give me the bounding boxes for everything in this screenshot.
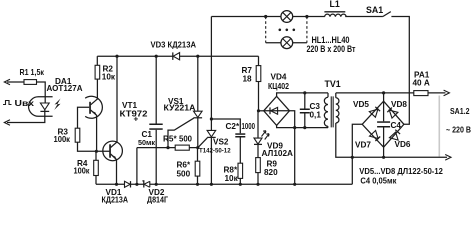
svg-text:R1 1,5к: R1 1,5к [20, 68, 45, 77]
node: bridge arm on rail [293, 183, 296, 186]
svg-text:500: 500 [179, 134, 192, 143]
capacitor C4 [377, 101, 390, 147]
transformer TV1 secondary [336, 93, 353, 157]
svg-text:АЛ102А: АЛ102А [262, 149, 294, 158]
wire: input top lead with left arrow [4, 79, 45, 102]
resistor R6 [195, 148, 200, 185]
svg-text:VD5: VD5 [353, 100, 369, 109]
svg-text:VS2: VS2 [213, 138, 229, 147]
transformer TV1 core [331, 96, 334, 127]
optocoupler U1 LED housing [29, 97, 53, 117]
wire: LED cathode to lower input arrow [4, 111, 45, 125]
node: R9 bottom on rail [256, 183, 259, 186]
svg-text:~ 220 В: ~ 220 В [446, 126, 471, 135]
lamp HL1 [281, 11, 293, 23]
wire: R2 top to +rail [96, 56, 98, 65]
zener diode VD2 [142, 181, 149, 188]
wire: R9 bottom [257, 173, 259, 185]
switch SA1 [383, 12, 391, 17]
node: VS2 cathode on rail [210, 183, 213, 186]
capacitor C2 [235, 133, 245, 163]
photon arrows of DA1 [54, 99, 60, 110]
node: R8 bottom on rail [239, 183, 242, 186]
wire: SA1 to right arm down [391, 17, 409, 93]
capacitor C1 [149, 56, 162, 184]
node: VT1 collector on rail [115, 55, 118, 58]
diode VD1 [125, 181, 131, 187]
svg-text:Д814Г: Д814Г [147, 195, 168, 204]
node: arm crosses bottom bus [293, 126, 296, 129]
wire: bridge right arm down to rail [290, 111, 295, 185]
svg-text:50мк: 50мк [138, 138, 155, 147]
node: C3 top [303, 91, 306, 94]
wire: bridge bottom lead and bottom bus to TV1 [277, 125, 328, 127]
wire: bridge right arm up to bus [404, 93, 409, 124]
thyristor VS1 [168, 56, 202, 147]
node: VS1 anode on rail [196, 55, 199, 58]
svg-text:Т142-50-12: Т142-50-12 [199, 147, 231, 154]
node: base/R4 junction [95, 150, 98, 153]
resistor R5 [175, 145, 189, 150]
resistor R8 [238, 163, 243, 184]
wire: secondary top bus to PA1 [336, 92, 446, 94]
node: R7/VD9/bridge junction [257, 109, 260, 112]
svg-text:C4 0,05мк: C4 0,05мк [360, 176, 397, 185]
arrow: output bottom [445, 155, 451, 161]
svg-text:TV1: TV1 [325, 79, 341, 89]
svg-text:КУ221А: КУ221А [164, 104, 196, 113]
node: C1 top on rail [155, 55, 158, 58]
resistor R4 [94, 160, 99, 175]
transistor VT1 [103, 56, 123, 184]
inductor L1 [324, 11, 346, 17]
wire: output bottom [352, 156, 447, 158]
wire: R3 bottom to VT1 base [78, 142, 111, 151]
resistor R9 [256, 158, 261, 173]
resistor R7 [256, 56, 261, 111]
svg-text:C4: C4 [391, 121, 402, 130]
wire: bridge left lead [259, 110, 264, 112]
dashed link left of lamp group [265, 17, 267, 43]
svg-text:VD6: VD6 [395, 140, 411, 149]
resistor R2 [95, 65, 100, 79]
svg-text:VD5...VD8 ДЛ122-50-12: VD5...VD8 ДЛ122-50-12 [359, 167, 443, 176]
transformer TV1 primary [324, 93, 328, 128]
node: R5 corner on rail [135, 183, 138, 186]
wire: C2 branch [211, 119, 240, 133]
node: bridge bottom on output wire [382, 156, 385, 159]
resistor R1 [24, 80, 37, 85]
svg-text:10к: 10к [102, 72, 116, 81]
wire: bridge bottom stub [383, 147, 385, 157]
svg-text:АОТ127А: АОТ127А [47, 84, 83, 93]
node: dashed box left on rail [264, 15, 267, 18]
svg-text:0,1: 0,1 [310, 111, 322, 120]
svg-text:КЦ402: КЦ402 [268, 82, 289, 91]
svg-text:R6*: R6* [177, 161, 191, 170]
svg-text:100к: 100к [54, 135, 71, 144]
arrow: output top [444, 90, 450, 96]
wire: bridge top lead and top bus to TV1 [277, 93, 328, 96]
capacitor C3 [300, 93, 310, 128]
svg-text:1000: 1000 [242, 122, 256, 131]
diode VD5 [369, 107, 380, 117]
node: C2 branch on VS2 arm [210, 117, 213, 120]
node: VS1 cathode / VS2 gate junction [196, 146, 199, 149]
svg-text:C2*: C2* [226, 122, 240, 131]
label Uvx with pulse symbol [3, 99, 35, 108]
node: R6 bottom on rail [196, 183, 199, 186]
thyristor VS2 [198, 130, 215, 184]
svg-text:SA1.2: SA1.2 [450, 107, 470, 116]
svg-text:220 В х 200 Вт: 220 В х 200 Вт [307, 44, 357, 54]
diode VD3 [173, 52, 180, 60]
svg-text:10к: 10к [225, 174, 239, 183]
LED VD9 [254, 111, 269, 158]
wire: top rail to lamps [211, 16, 324, 18]
diode VD7 [370, 131, 381, 142]
svg-text:SA1: SA1 [366, 5, 383, 15]
svg-text:VD8: VD8 [391, 100, 407, 109]
node: VT1 emitter on rail [115, 183, 118, 186]
rectifier bridge VD4 [264, 96, 290, 125]
switch link SA1.2 [439, 96, 441, 157]
wire: gate network / R5 line [137, 148, 198, 185]
svg-text:500: 500 [177, 170, 191, 179]
wire: +rail y=56 [97, 55, 258, 57]
LED diode of DA1 [40, 103, 49, 111]
svg-text:R5*: R5* [163, 134, 177, 143]
lamp HL40 [281, 37, 293, 49]
wire: bridge top stub [383, 93, 385, 101]
svg-text:КД213А: КД213А [102, 195, 129, 204]
node: VS1 gate junction [166, 146, 169, 149]
wire: lamp HL40 branch [266, 42, 307, 44]
wire: R4 leads [95, 151, 97, 184]
ammeter PA1 [414, 91, 428, 96]
resistor R3 [75, 128, 80, 142]
wire: VS2 anode arm from top rail [210, 17, 212, 131]
wire: L1 to SA1 [345, 16, 383, 18]
wire: bridge left arm to rail [352, 124, 362, 184]
phototransistor of DA1 [78, 79, 103, 151]
dashed link right of lamp group [306, 17, 308, 43]
diode VD8 [387, 108, 398, 119]
svg-text:18: 18 [243, 75, 253, 84]
node: dashed box right on rail [305, 15, 308, 18]
node: secondary bottom joins left arm [351, 156, 354, 159]
svg-text:VD7: VD7 [355, 141, 371, 150]
svg-text:VD3 КД213А: VD3 КД213А [151, 41, 197, 50]
svg-text:VD4: VD4 [271, 73, 287, 82]
svg-text:40 А: 40 А [413, 79, 430, 88]
rectifier bridge VD5-VD8 [362, 101, 404, 147]
node: bridge top on bus [382, 91, 385, 94]
svg-text:Uвх: Uвх [15, 99, 35, 108]
svg-text:+: + [134, 115, 139, 124]
svg-text:L1: L1 [330, 0, 340, 9]
node: C3 bottom [303, 126, 306, 129]
wire: bottom rail [96, 183, 352, 185]
diode VD6 [390, 130, 401, 140]
node: C1 bottom on rail [155, 183, 158, 186]
svg-text:820: 820 [264, 168, 278, 177]
svg-text:100к: 100к [74, 167, 91, 176]
ellipsis dots between lamps [279, 29, 296, 32]
